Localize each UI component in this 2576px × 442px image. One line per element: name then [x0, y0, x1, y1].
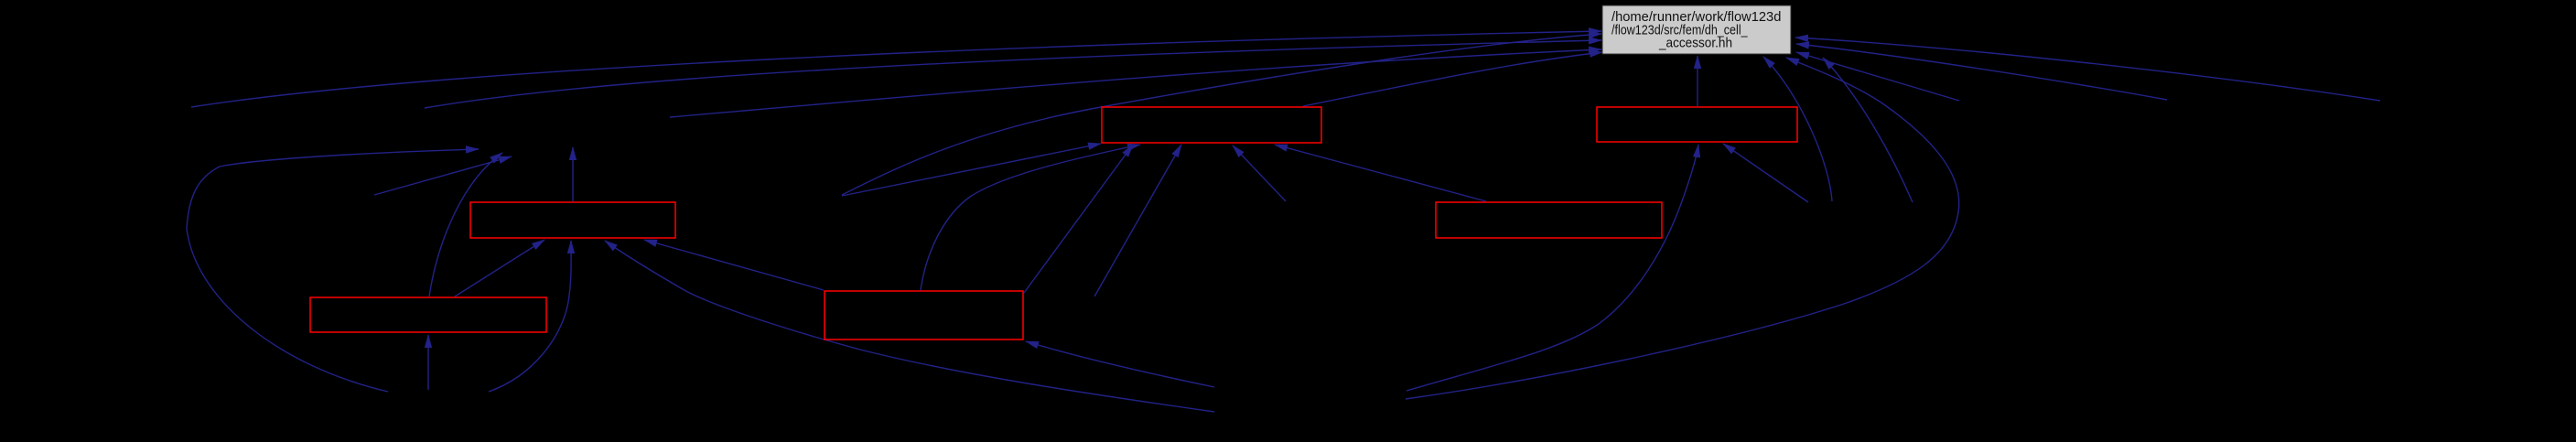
edge E11: node N4 to box D	[1233, 146, 1286, 201]
node: red box C	[825, 291, 1023, 340]
edge E16: bottom-middle node to box C right edge	[1026, 341, 1214, 387]
edge PETAL: bottom node N_bb loop to main header bottom-right	[1406, 58, 1959, 399]
edge E2: node N2 to N1	[374, 156, 512, 195]
edge E22: right node N7b to main header right edge	[1796, 44, 2167, 100]
svg-text:_accessor.hh: _accessor.hh	[1658, 37, 1732, 51]
node: red box B	[310, 297, 546, 332]
edge L2: far-left node A2 to main header	[425, 40, 1601, 108]
edge E8: node N3 to box D	[842, 144, 1101, 196]
edge E24: node N6 to main header bottom	[1763, 57, 1832, 201]
edge L3: node N1 to main header	[670, 49, 1601, 117]
node: red box A	[470, 202, 675, 238]
edge E20: box F to main header (vertical)	[1697, 56, 1698, 106]
edge E4: box B to box A	[455, 240, 544, 296]
edge E10: box C top-right corner to box D	[1024, 145, 1133, 293]
edge E12: box D to main header	[1303, 52, 1602, 106]
edge E15: box C top to box D (flattening curve)	[921, 145, 1140, 290]
edge E5: bottom-left node to box A	[489, 241, 571, 392]
edge E1: box B to N1	[429, 153, 502, 296]
edge E18: node N6 to box F	[1723, 144, 1808, 202]
node: red box E	[1436, 202, 1662, 238]
edge E6: bottom-middle node to box A (long low curve)	[605, 241, 1214, 412]
edge EB: bottom-left node to box B (vertical)	[427, 335, 429, 390]
edge E14: node N5 to box D	[1094, 145, 1181, 296]
edge E17: bottom node N_bb to box F (big rising curve)	[1407, 145, 1698, 391]
node: red box D	[1102, 107, 1321, 143]
edge L1: far-left node A1 to main header	[191, 31, 1601, 107]
edge E13: box E to box D	[1275, 145, 1486, 201]
edge E21: far-right node N8 to main header right edge	[1795, 38, 2380, 101]
node: red box F	[1597, 107, 1797, 142]
edge E9: box C to box A	[644, 240, 824, 290]
edge from box A top to N1	[572, 147, 574, 201]
edge EX2: node N6b to main header bottom	[1823, 58, 1913, 202]
edge E3: bottom-left node to N1 (big left arc)	[187, 149, 479, 392]
edge E23: right node N7 to main header right edge	[1796, 52, 1959, 101]
edge LINE4: node N3 to main header	[842, 34, 1601, 195]
node: main header /home/runner/work/flow123d/flow123d/src/fem/dh_cell_accessor.hh (gray)	[1602, 5, 1791, 54]
